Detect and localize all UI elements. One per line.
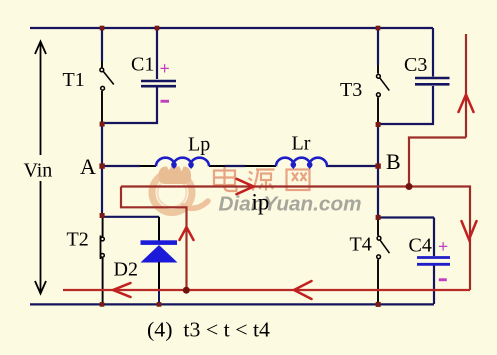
svg-text:D2: D2: [114, 259, 138, 281]
svg-text:T1: T1: [63, 69, 85, 91]
svg-text:Lr: Lr: [292, 133, 311, 155]
svg-text:C3: C3: [404, 54, 427, 76]
svg-text:ip: ip: [252, 190, 270, 215]
svg-text:Lp: Lp: [188, 134, 210, 156]
svg-text:T3: T3: [340, 79, 362, 101]
svg-text:T4: T4: [350, 234, 372, 256]
svg-text:+: +: [160, 59, 170, 79]
svg-text:C1: C1: [131, 54, 154, 76]
svg-text:B: B: [386, 149, 401, 174]
svg-text:Vin: Vin: [24, 160, 53, 182]
svg-text:+: +: [438, 237, 448, 257]
svg-text:A: A: [80, 154, 96, 179]
svg-text:(4) t3 < t < t4: (4) t3 < t < t4: [147, 318, 271, 342]
svg-text:C4: C4: [409, 235, 432, 257]
svg-text:T2: T2: [67, 229, 89, 251]
svg-text:DianYuan.com: DianYuan.com: [219, 194, 362, 216]
